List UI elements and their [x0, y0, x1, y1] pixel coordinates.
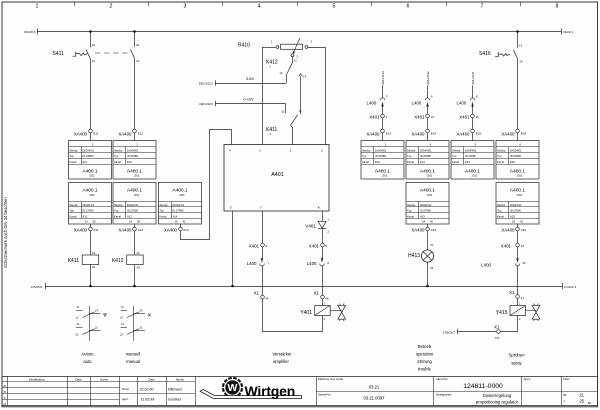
wire XA400:A14 to A401 pin4 [181, 130, 232, 240]
svg-text:L400: L400 [307, 261, 317, 266]
svg-text:Sprühen: Sprühen [509, 352, 526, 357]
svg-text:/201: /201 [179, 193, 185, 197]
svg-text:K411: K411 [68, 258, 80, 264]
svg-text:manual: manual [126, 359, 140, 364]
terminal X401:10 [414, 114, 434, 129]
svg-text:0-10V: 0-10V [244, 97, 255, 101]
svg-text:b: b [4, 390, 6, 394]
mechanical link S411 (dashed) [95, 52, 129, 54]
valve symbol Y415 [526, 304, 540, 321]
svg-text:Serial-No.: Serial-No. [318, 392, 332, 396]
terminal block A400.1 input E16 [496, 141, 539, 180]
svg-text:/201: /201 [382, 174, 388, 178]
svg-text:40: 40 [430, 220, 433, 224]
svg-text:X401: X401 [249, 243, 260, 248]
svg-text:ID.23580: ID.23580 [83, 154, 94, 158]
op-amp amplifier A401 [224, 145, 329, 212]
wire R410 pin1 to A401 pin3 [262, 47, 276, 145]
svg-text:Steckp.: Steckp. [114, 203, 123, 207]
svg-text:25: 25 [579, 398, 584, 403]
svg-text:03.21: 03.21 [369, 384, 380, 389]
svg-text:/201: /201 [517, 174, 523, 178]
svg-text:26: 26 [512, 220, 515, 224]
svg-text:ID.27900: ID.27900 [83, 209, 94, 213]
svg-text:Typ: Typ [407, 154, 412, 158]
svg-text:Date: Date [148, 377, 155, 381]
svg-text:DIG04-01: DIG04-01 [83, 203, 95, 207]
svg-text:A1: A1 [92, 251, 96, 255]
svg-text:X1: X1 [254, 290, 260, 295]
terminal block A400.1 output A11 [69, 183, 112, 225]
svg-text:Spec.: Spec. [524, 377, 532, 381]
svg-text:E13: E13 [375, 160, 380, 164]
svg-text:39: 39 [137, 220, 140, 224]
svg-text:A12: A12 [138, 228, 144, 232]
relay contact K412 changeover [280, 57, 307, 79]
terminal block A400.1 input E15 [451, 141, 494, 180]
svg-text:E16: E16 [521, 132, 527, 136]
junction top bus / S411 contact 1 [89, 30, 92, 33]
terminal block A400.1 output A15 [496, 183, 539, 225]
svg-text:manuell: manuell [126, 351, 141, 356]
switch S411 contact 2 (23-24) [130, 32, 139, 64]
svg-text:EW2.3/22.5: EW2.3/22.5 [199, 82, 214, 86]
label manuell/manual [126, 351, 141, 364]
svg-text:Date: Date [75, 377, 82, 381]
svg-text:Plan: Plan [564, 377, 570, 381]
switch S416 label [479, 51, 491, 57]
svg-text:XA400: XA400 [74, 131, 88, 136]
svg-text:d: d [4, 402, 6, 406]
label Spr&#252;hen/spray [509, 352, 526, 365]
svg-text:/201: /201 [89, 174, 95, 178]
svg-text:/201: /201 [427, 193, 433, 197]
svg-text:13: 13 [519, 44, 523, 48]
svg-text:A13: A13 [431, 228, 437, 232]
wiper terminal R410 pin2 [291, 54, 294, 57]
svg-text:/201: /201 [134, 193, 140, 197]
relay contact K411 label [266, 127, 278, 136]
svg-text:Typ: Typ [407, 209, 412, 213]
svg-text:A11: A11 [93, 228, 98, 232]
svg-text:trouble: trouble [418, 367, 431, 372]
cable label 3WL26/4e [426, 71, 430, 85]
svg-text:X1: X1 [314, 290, 320, 295]
svg-text:23: 23 [136, 43, 140, 47]
wire A401 pin7 down [262, 211, 264, 243]
svg-text:Kanal: Kanal [70, 215, 77, 219]
cable label 3WL26/4d [381, 71, 385, 85]
svg-text:Kanal: Kanal [70, 160, 77, 164]
svg-text:X401: X401 [369, 114, 380, 119]
svg-text:A12: A12 [127, 215, 132, 219]
svg-text:Schutzvermerk nach DIN 34 beac: Schutzvermerk nach DIN 34 beachten [3, 197, 8, 268]
label Verstärker/amplifier [272, 351, 292, 364]
svg-text:DIG04-01: DIG04-01 [127, 203, 139, 207]
svg-text:/201: /201 [472, 174, 478, 178]
svg-text:operation: operation [416, 352, 434, 357]
terminal X1:47 [509, 290, 524, 300]
svg-text:Drwn.: Drwn. [122, 387, 130, 391]
svg-text:3WL26/4f: 3WL26/4f [471, 72, 475, 85]
wire S411 contact2 to XA400:E12 [134, 63, 136, 129]
svg-text:03.21.0097: 03.21.0097 [364, 395, 386, 400]
junction lamp H413 / 0V bus [426, 285, 429, 288]
svg-text:K412: K412 [112, 258, 124, 264]
connector L400:5 [367, 86, 388, 115]
svg-text:Designation: Designation [436, 392, 452, 396]
svg-text:ID.23580: ID.23580 [510, 154, 521, 158]
wire V401 to X401:5 [322, 229, 324, 243]
svg-text:/201: /201 [427, 174, 433, 178]
svg-text:X401: X401 [309, 243, 320, 248]
terminal XA400:A15 [501, 224, 526, 232]
svg-text:Steckp.: Steckp. [407, 203, 416, 207]
svg-text:auto.: auto. [83, 359, 92, 364]
svg-text:124811-0000: 124811-0000 [463, 383, 503, 390]
terminal X401:5 [309, 243, 328, 248]
connector L400:8 [457, 86, 478, 115]
svg-text:A14: A14 [173, 215, 178, 219]
svg-text:ID.23580: ID.23580 [375, 154, 386, 158]
solenoid coil Y401 [300, 299, 330, 331]
terminal block A400.1 output A14 [159, 183, 202, 225]
svg-text:3: 3 [184, 4, 187, 10]
svg-text:DIG04/01: DIG04/01 [510, 148, 522, 152]
svg-text:0-8V: 0-8V [246, 77, 254, 81]
wire S411 contact1 to XA400:E11 [90, 63, 92, 129]
svg-text:E11: E11 [83, 160, 88, 164]
svg-text:6: 6 [407, 4, 410, 10]
svg-text:Kanal: Kanal [160, 215, 167, 219]
switch S416 contact (13-14) [513, 32, 522, 64]
svg-text:7: 7 [481, 4, 484, 10]
svg-text:Steckp.: Steckp. [114, 148, 123, 152]
svg-text:41: 41 [183, 220, 186, 224]
svg-text:25: 25 [175, 220, 178, 224]
svg-text:10: 10 [431, 115, 435, 119]
svg-text:Typ: Typ [160, 209, 165, 213]
svg-text:Typ: Typ [70, 209, 75, 213]
switch position symbol manual (S411 pos 2) [120, 305, 151, 341]
svg-text:X1: X1 [494, 325, 500, 330]
terminal XA400:E12 [118, 129, 143, 140]
svg-text:16/22.1: 16/22.1 [563, 30, 573, 34]
terminal block A400.1 input E13 [361, 141, 404, 180]
switch S411 contact 1 (13-14) [86, 32, 95, 64]
cable label 3WL26/4f [471, 72, 475, 85]
terminal XA400:A14 [164, 224, 189, 232]
terminal X401:9 [369, 114, 388, 129]
terminal X401:14 [501, 243, 525, 248]
svg-text:ID.27900: ID.27900 [420, 209, 431, 213]
svg-text:Typ: Typ [497, 209, 502, 213]
svg-text:Autom.: Autom. [81, 351, 94, 356]
svg-text:T31: T31 [495, 336, 500, 340]
svg-text:Y415: Y415 [496, 310, 508, 316]
terminal XA400:A12 [118, 224, 143, 232]
svg-text:E13: E13 [386, 132, 392, 136]
svg-text:A2: A2 [92, 265, 96, 269]
svg-text:ID.23580: ID.23580 [465, 154, 476, 158]
svg-text:2-: 2- [230, 206, 233, 210]
solenoid coil Y415 [496, 298, 526, 321]
resistor R410 potentiometer [271, 38, 313, 59]
svg-text:23: 23 [85, 220, 88, 224]
svg-text:XA400: XA400 [501, 227, 515, 232]
svg-text:X401: X401 [414, 114, 425, 119]
svg-text:spray: spray [511, 360, 522, 365]
svg-text:A14: A14 [183, 228, 189, 232]
svg-text:DIG04/01: DIG04/01 [420, 148, 432, 152]
svg-text:Name: Name [100, 377, 108, 381]
svg-text:/201: /201 [134, 174, 140, 178]
svg-text:Typ: Typ [362, 154, 367, 158]
svg-text:1: 1 [36, 4, 39, 10]
terminal XA400:E16 [501, 129, 526, 140]
wire 0-8V analog signal [199, 77, 286, 86]
label Betrieb/operation/St&#246;rung/trouble [416, 344, 434, 372]
svg-text:15A/30.8: 15A/30.8 [24, 30, 36, 34]
wire X1:44 to valve return [263, 299, 323, 332]
svg-text:E15: E15 [476, 132, 482, 136]
svg-text:22.02.90: 22.02.90 [140, 387, 154, 391]
svg-text:X401: X401 [459, 114, 470, 119]
svg-text:Dosierregelung: Dosierregelung [483, 393, 512, 398]
junction K412 / bus [133, 285, 136, 288]
terminal X1:T31 on return wire [494, 325, 500, 340]
svg-text:14: 14 [521, 244, 525, 248]
svg-text:24: 24 [422, 220, 425, 224]
terminal block A400.1 output A12 [113, 183, 156, 225]
svg-text:Steckp.: Steckp. [452, 148, 461, 152]
relay coil K412 [112, 231, 143, 286]
svg-text:W: W [228, 382, 238, 394]
terminal XA400:E14 [411, 129, 436, 140]
svg-text:XA400: XA400 [411, 131, 425, 136]
switch position symbol auto (S411 pos 1) [76, 305, 107, 341]
junction A401 pin2 / bus [231, 285, 234, 288]
relay coil K411 [68, 231, 99, 286]
svg-text:R410: R410 [238, 42, 250, 48]
svg-text:XA400: XA400 [118, 131, 132, 136]
svg-text:2: 2 [110, 4, 113, 10]
connector L400:6 [412, 86, 433, 115]
svg-text:46: 46 [325, 296, 329, 300]
relay contact K412 label [266, 60, 278, 69]
wire K411 to A401 pin5 [290, 126, 292, 145]
svg-text:c: c [4, 396, 6, 400]
svg-text:17A/25.8: 17A/25.8 [30, 285, 42, 289]
switch S416 manual actuator [495, 52, 510, 57]
svg-text:21: 21 [579, 393, 584, 398]
svg-text:v.: v. [564, 399, 566, 403]
svg-text:L400: L400 [481, 262, 491, 267]
svg-text:DIG04/01: DIG04/01 [127, 148, 139, 152]
svg-text:Modification: Modification [29, 377, 45, 381]
svg-text:17B/26.7: 17B/26.7 [443, 330, 455, 334]
wire S416 to XA400:E16 [517, 63, 519, 129]
svg-text:39: 39 [93, 220, 96, 224]
svg-text:ID.23580: ID.23580 [127, 154, 138, 158]
title block [2, 376, 598, 406]
junction K411 / bus [89, 285, 92, 288]
wire Y415 return to 17B/26.7 [443, 316, 518, 335]
svg-text:V401: V401 [305, 223, 316, 228]
svg-text:Typ: Typ [114, 154, 119, 158]
logo Wirtgen [200, 377, 301, 399]
terminal XA400:E11 [74, 129, 99, 140]
svg-text:L400: L400 [457, 100, 467, 105]
terminal X401:4 [249, 243, 268, 248]
svg-text:8-: 8- [318, 206, 321, 210]
svg-text:11: 11 [476, 115, 479, 119]
wire R410 pin3 to A401 pin6 [307, 47, 325, 145]
svg-text:AW2.2/22.8: AW2.2/22.8 [199, 102, 213, 106]
terminal XA400:A11 [74, 224, 99, 232]
svg-text:Typ: Typ [497, 154, 502, 158]
svg-text:7-: 7- [260, 206, 263, 210]
svg-text:S411: S411 [53, 51, 65, 57]
junction top bus / S411 contact 2 [133, 30, 136, 33]
svg-text:S416: S416 [479, 51, 491, 57]
svg-text:K411: K411 [266, 127, 278, 133]
wire 0-10V analog signal [199, 97, 286, 113]
svg-text:14: 14 [519, 60, 523, 64]
svg-text:Kanal: Kanal [407, 215, 414, 219]
resistor R410 label [238, 42, 250, 48]
svg-text:L400: L400 [367, 100, 377, 105]
svg-text:3WL26/4d: 3WL26/4d [381, 71, 385, 85]
svg-text:Kanal: Kanal [362, 160, 369, 164]
svg-text:14: 14 [92, 59, 96, 63]
wire XA400:A15 down [517, 231, 519, 243]
svg-text:XA400: XA400 [164, 227, 178, 232]
svg-text:8: 8 [556, 4, 559, 10]
terminal block A400.1 input E12 [113, 141, 156, 180]
svg-text:Gunther: Gunther [168, 397, 182, 401]
svg-text:XA400: XA400 [411, 227, 425, 232]
svg-text:L400: L400 [412, 100, 422, 105]
svg-text:47: 47 [521, 296, 525, 300]
svg-text:Verstärker: Verstärker [272, 351, 292, 356]
svg-text:13: 13 [92, 43, 96, 47]
switch S411 label [53, 51, 65, 57]
svg-text:XA400: XA400 [118, 227, 132, 232]
wire A401 pin8 down [322, 211, 324, 221]
wire K412 NC branch to K411 [300, 76, 302, 114]
svg-text:DIG04-01: DIG04-01 [420, 203, 432, 207]
svg-text:Steckp.: Steckp. [497, 148, 506, 152]
svg-text:E14: E14 [431, 132, 437, 136]
svg-text:Bl.: Bl. [588, 401, 592, 405]
switch S411 manual actuator [73, 52, 88, 57]
svg-text:Bl.: Bl. [564, 393, 568, 397]
terminal block A400.1 output A13 [406, 183, 449, 225]
svg-text:Y401: Y401 [300, 310, 312, 316]
terminal XA400:E15 [456, 129, 481, 140]
svg-text:X1: X1 [430, 243, 434, 247]
svg-text:4: 4 [258, 4, 261, 10]
svg-text:E16: E16 [510, 160, 515, 164]
lamp H413 [408, 231, 434, 286]
svg-text:Betrieb: Betrieb [418, 344, 432, 349]
wire K412 NO to 0-8V line [286, 75, 288, 83]
svg-text:/201: /201 [517, 193, 523, 197]
svg-text:Kanal: Kanal [497, 215, 504, 219]
label Autom./auto. [81, 351, 94, 364]
svg-text:Steckp.: Steckp. [160, 203, 169, 207]
svg-text:A2: A2 [137, 265, 141, 269]
svg-text:E14: E14 [420, 160, 425, 164]
svg-text:XA400: XA400 [456, 131, 470, 136]
svg-text:A15: A15 [510, 215, 515, 219]
svg-text:DIG04/01: DIG04/01 [375, 148, 387, 152]
svg-text:24: 24 [136, 59, 140, 63]
svg-text:DIG04-01: DIG04-01 [510, 203, 522, 207]
terminal XA400:E13 [366, 129, 391, 140]
svg-text:Ident-No.: Ident-No. [436, 377, 449, 381]
svg-text:Störung: Störung [417, 359, 432, 364]
svg-text:X401: X401 [501, 243, 512, 248]
svg-text:Steckp.: Steckp. [362, 148, 371, 152]
junction top bus / S416 [516, 30, 519, 33]
svg-text:A15: A15 [521, 228, 527, 232]
svg-text:/201: /201 [89, 193, 95, 197]
svg-text:Wirtgen: Wirtgen [245, 383, 296, 399]
svg-text:ID.23580: ID.23580 [420, 154, 431, 158]
svg-text:X1: X1 [509, 290, 515, 295]
svg-text:XA400: XA400 [366, 131, 380, 136]
svg-text:Kanal: Kanal [452, 160, 459, 164]
wire top supply bus 15/30.8 [24, 29, 573, 35]
svg-text:A1: A1 [137, 251, 141, 255]
svg-text:5: 5 [333, 4, 336, 10]
svg-text:E12: E12 [138, 132, 144, 136]
svg-text:ID.27900: ID.27900 [127, 209, 138, 213]
terminal block A400.1 input E14 [406, 141, 449, 180]
svg-text:A13: A13 [420, 215, 425, 219]
svg-text:DIG04/01: DIG04/01 [465, 148, 477, 152]
svg-text:Machine Key Code: Machine Key Code [318, 377, 344, 381]
svg-text:XA400: XA400 [74, 227, 88, 232]
relay contact K411 [282, 109, 302, 126]
svg-text:Kanal: Kanal [114, 160, 121, 164]
connector L400:28 [481, 247, 526, 295]
wire A401 pin2 to 0V bus [232, 211, 234, 286]
svg-text:E15: E15 [465, 160, 470, 164]
wire bottom 0V bus 17A [30, 283, 576, 289]
svg-text:17A/22.3: 17A/22.3 [564, 285, 576, 289]
svg-text:Typ: Typ [452, 154, 457, 158]
svg-text:42: 42 [520, 220, 523, 224]
valve symbol Y401 [330, 304, 346, 321]
terminal block A400.1 input E11 [69, 141, 112, 180]
svg-text:L400: L400 [247, 261, 257, 266]
svg-text:ID.27900: ID.27900 [173, 209, 184, 213]
svg-text:Kanal: Kanal [114, 215, 121, 219]
terminal XA400:A13 [411, 224, 436, 232]
svg-text:Steckp.: Steckp. [497, 203, 506, 207]
svg-text:Steckp.: Steckp. [70, 203, 79, 207]
svg-text:24: 24 [129, 220, 132, 224]
svg-text:Steckp.: Steckp. [70, 148, 79, 152]
svg-text:DIG04-01: DIG04-01 [173, 203, 185, 207]
terminal X401:11 [459, 114, 479, 129]
svg-text:E12: E12 [127, 160, 132, 164]
svg-text:H413: H413 [408, 253, 420, 259]
connector L400 (pin7 side) [247, 247, 270, 295]
